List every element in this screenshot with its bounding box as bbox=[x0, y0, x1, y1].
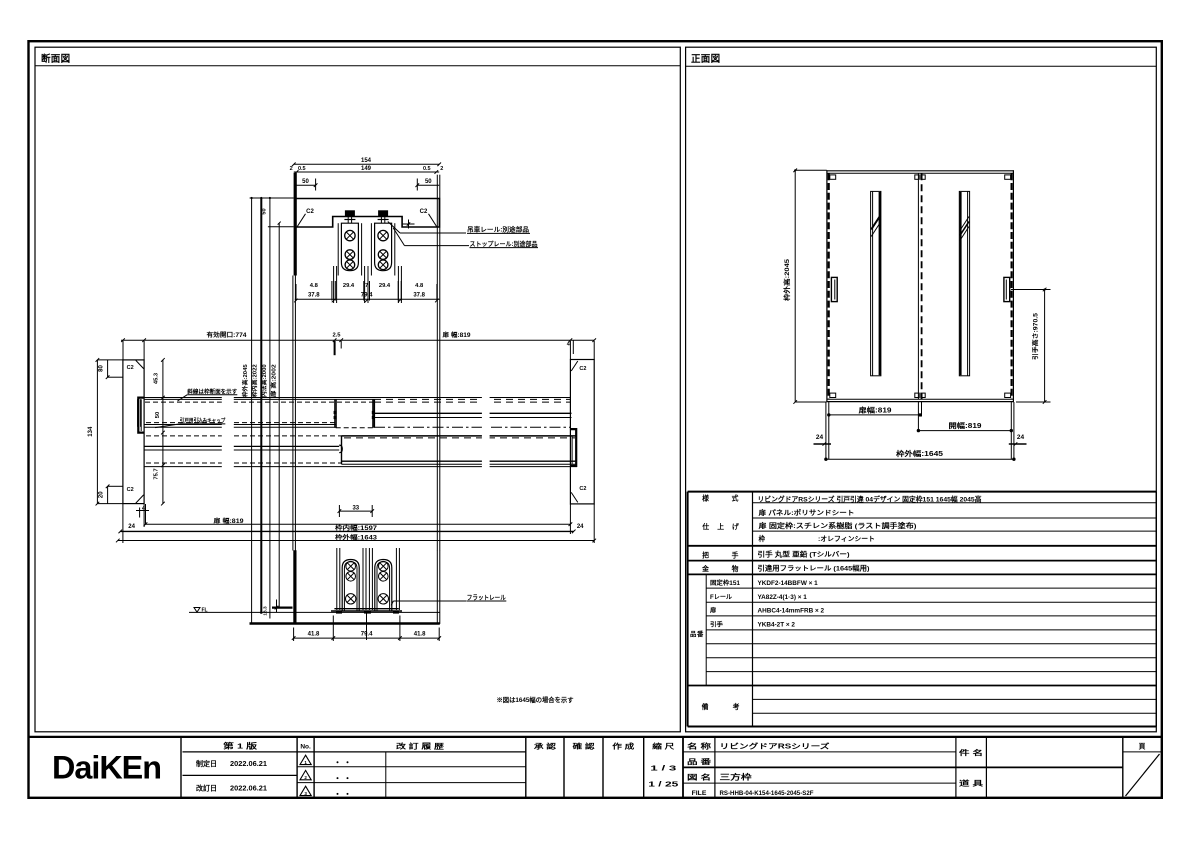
svg-text:29.4: 29.4 bbox=[379, 283, 391, 289]
svg-text:2: 2 bbox=[290, 166, 293, 172]
front view: top-left corner bracket bbox=[830, 175, 836, 179]
svg-text:吊車レール:別途部品: 吊車レール:別途部品 bbox=[467, 225, 529, 234]
svg-text:扉: 扉 bbox=[709, 607, 716, 615]
svg-text:37.8: 37.8 bbox=[413, 293, 425, 299]
plan break gap left bbox=[222, 390, 234, 470]
svg-text:79.4: 79.4 bbox=[361, 631, 373, 637]
front view: left frame edge solid bbox=[826, 170, 828, 402]
svg-text:枠外高:2045: 枠外高:2045 bbox=[241, 364, 249, 398]
svg-text:頁: 頁 bbox=[1139, 743, 1146, 751]
front dim 24 right bbox=[1009, 443, 1027, 445]
svg-text:C2: C2 bbox=[420, 209, 428, 215]
svg-text:第 1 版: 第 1 版 bbox=[223, 740, 258, 750]
svg-text:断面図: 断面図 bbox=[41, 53, 70, 65]
svg-text:枠外幅:1645: 枠外幅:1645 bbox=[896, 449, 943, 458]
top detail: roller hanger right body bbox=[375, 223, 392, 271]
front view: center stile solid line bbox=[917, 173, 919, 399]
svg-text:45.3: 45.3 bbox=[154, 372, 160, 384]
front view: bottom-center brackets bbox=[915, 393, 919, 397]
callout leader 吊車レール bbox=[388, 222, 400, 234]
svg-text:リビングドアRSシリーズ 引戸引違 04デザイン 固定枠15: リビングドアRSシリーズ 引戸引違 04デザイン 固定枠151 1645幅 20… bbox=[758, 495, 982, 504]
svg-text:扉 高:2002: 扉 高:2002 bbox=[269, 364, 277, 397]
svg-text:YKDF2-14BBFW × 1: YKDF2-14BBFW × 1 bbox=[758, 580, 819, 587]
svg-text:AHBC4-14mmFRB × 2: AHBC4-14mmFRB × 2 bbox=[758, 608, 825, 615]
vertical section frame lines left bbox=[292, 276, 294, 551]
svg-text:名 称: 名 称 bbox=[687, 742, 711, 751]
svg-text:三方枠: 三方枠 bbox=[720, 772, 753, 782]
bottom detail: floor bottom thick bbox=[250, 622, 440, 625]
svg-text:扉幅:819: 扉幅:819 bbox=[857, 406, 891, 415]
vertical section connector top bbox=[250, 197, 294, 199]
top detail: right 50 dim bbox=[417, 184, 439, 186]
svg-text:内法高:2000: 内法高:2000 bbox=[260, 364, 268, 397]
top detail: roller right side plates bbox=[370, 223, 372, 275]
title block right section divider bbox=[682, 737, 684, 798]
svg-text::オレフィンシート: :オレフィンシート bbox=[818, 535, 875, 543]
svg-text:仕: 仕 bbox=[701, 522, 709, 531]
svg-text:引手 丸型 亜鉛 (Tシルバー): 引手 丸型 亜鉛 (Tシルバー) bbox=[758, 550, 850, 559]
svg-text:20: 20 bbox=[98, 491, 104, 498]
plan upper band centerline right bbox=[374, 426, 570, 428]
recess dim arrow right bbox=[402, 223, 415, 225]
svg-text:24: 24 bbox=[577, 524, 584, 530]
front dim 24 left bbox=[814, 443, 832, 445]
title block column 承認 bbox=[525, 737, 527, 798]
svg-text:固定枠151: 固定枠151 bbox=[710, 579, 741, 587]
vertical dim line 4 bbox=[278, 223, 280, 608]
title block: No column bbox=[296, 737, 298, 798]
svg-text:品 番: 品 番 bbox=[687, 757, 711, 766]
plan lower band bottom edge bbox=[342, 460, 578, 462]
svg-text:DaiKEn: DaiKEn bbox=[52, 750, 161, 786]
svg-text:29.4: 29.4 bbox=[343, 283, 355, 289]
svg-text:33: 33 bbox=[352, 505, 359, 511]
svg-text:フラットレール: フラットレール bbox=[467, 594, 507, 602]
plan bottom dim 33 bbox=[339, 510, 372, 512]
top detail: roller hanger left bolt bbox=[345, 210, 355, 216]
front view: left handle bbox=[831, 277, 837, 301]
front view: right handle bbox=[1004, 277, 1010, 301]
front dim extension verticals below door bbox=[825, 402, 827, 459]
svg-text:承 認: 承 認 bbox=[534, 742, 556, 751]
top detail: bottom dim extension lines bbox=[295, 284, 297, 301]
top detail: roller right wheels bbox=[378, 230, 388, 240]
right panel title separator bbox=[686, 65, 1157, 67]
svg-text:リビングドアRSシリーズ: リビングドアRSシリーズ bbox=[720, 742, 830, 751]
title block 件名 column bbox=[955, 737, 957, 798]
svg-text:枠外幅:1643: 枠外幅:1643 bbox=[335, 533, 378, 541]
top detail: C2 chamfer right bbox=[429, 214, 437, 227]
floor level mark FL bbox=[194, 608, 200, 613]
svg-text:0.5: 0.5 bbox=[298, 166, 306, 172]
plan lower rail end cap bbox=[339, 445, 342, 453]
front view: top-right corner bracket bbox=[1005, 175, 1011, 179]
top detail: roller left wheels bbox=[345, 230, 355, 240]
top detail: dim 154 line bbox=[294, 163, 439, 165]
svg-text:作 成: 作 成 bbox=[612, 742, 634, 751]
svg-text:2022.06.21: 2022.06.21 bbox=[230, 761, 267, 768]
svg-text:C2: C2 bbox=[579, 366, 586, 372]
svg-text:RS-HHB-04-K154-1645-2045-S2F: RS-HHB-04-K154-1645-2045-S2F bbox=[720, 790, 814, 797]
bottom detail: floor line thin bbox=[189, 611, 440, 613]
svg-text:YA82Z-4(1·3) × 1: YA82Z-4(1·3) × 1 bbox=[758, 594, 808, 601]
top detail: C2 chamfer left bbox=[297, 214, 305, 227]
svg-text:げ: げ bbox=[732, 522, 739, 531]
svg-text:50: 50 bbox=[302, 179, 309, 185]
spec table row lines bbox=[753, 502, 1157, 504]
svg-text:備: 備 bbox=[702, 702, 709, 711]
svg-text:149: 149 bbox=[361, 166, 372, 172]
title block top border bbox=[29, 736, 1162, 738]
title block column 確認 bbox=[563, 737, 565, 798]
svg-text:図 名: 図 名 bbox=[687, 773, 711, 782]
front dim 扉幅819 right bbox=[918, 430, 1011, 432]
plan top dim line bbox=[121, 339, 594, 341]
plan bottom extension verticals bbox=[122, 504, 124, 543]
svg-text:24: 24 bbox=[1017, 434, 1025, 441]
top detail: roller left side plates bbox=[337, 223, 339, 275]
svg-text:番: 番 bbox=[696, 629, 704, 638]
svg-text:50: 50 bbox=[155, 412, 161, 418]
svg-text:79.4: 79.4 bbox=[361, 293, 373, 299]
svg-text:枠内高:2022: 枠内高:2022 bbox=[251, 364, 259, 398]
plan upper band top edge bbox=[144, 397, 570, 399]
svg-text:確 認: 確 認 bbox=[573, 742, 595, 751]
left panel title separator bbox=[35, 65, 680, 67]
right jamb notch bracket bbox=[570, 429, 576, 466]
left jamb outer dim 134 bbox=[96, 360, 98, 504]
plan bottom dim 枠内幅1597 bbox=[120, 530, 573, 532]
svg-text:50: 50 bbox=[425, 179, 432, 185]
revision date dots bbox=[337, 761, 339, 763]
svg-text:1 / 3: 1 / 3 bbox=[650, 763, 676, 772]
revision warning triangle 3 bbox=[300, 786, 311, 795]
vertical section frame lines right bbox=[436, 276, 438, 551]
svg-text:開幅:819: 開幅:819 bbox=[949, 421, 982, 430]
svg-text:扉 パネル:ポリサンドシート: 扉 パネル:ポリサンドシート bbox=[759, 508, 855, 517]
front view: right glass slot bbox=[959, 191, 969, 375]
title block column 作成 bbox=[602, 737, 604, 798]
svg-text:考: 考 bbox=[733, 702, 740, 711]
svg-text:改 訂 履 歴: 改 訂 履 歴 bbox=[396, 742, 444, 751]
svg-text:斜線は枠断面を示す: 斜線は枠断面を示す bbox=[186, 387, 237, 395]
svg-text:枠内幅:1597: 枠内幅:1597 bbox=[335, 524, 378, 532]
vertical section connector 50-dim bbox=[268, 226, 294, 228]
spec table label column line bbox=[752, 492, 754, 727]
right panel frame (front view) bbox=[686, 47, 1157, 732]
left jamb bbox=[123, 360, 144, 504]
plan upper band hidden dash line bbox=[145, 401, 374, 403]
vertical dim line 3 bbox=[269, 198, 271, 619]
svg-text:80: 80 bbox=[98, 365, 104, 372]
front view: bottom-right corner bracket bbox=[1005, 393, 1011, 397]
svg-text:YKB4-2T × 2: YKB4-2T × 2 bbox=[758, 622, 796, 629]
callout フラットレール bbox=[391, 601, 393, 605]
svg-text:引違用フラットレール (1645幅用): 引違用フラットレール (1645幅用) bbox=[758, 564, 870, 573]
front dim 引手高さ970.5 vertical line bbox=[1044, 290, 1046, 403]
svg-text:18.3: 18.3 bbox=[262, 606, 268, 616]
svg-text:扉 固定枠:スチレン系樹脂 (ラスト調手塗布): 扉 固定枠:スチレン系樹脂 (ラスト調手塗布) bbox=[759, 521, 917, 530]
plan lower rail lines left bbox=[144, 445, 339, 447]
front view: right frame edge solid bbox=[1012, 170, 1014, 402]
front view: left glass slot bbox=[871, 191, 881, 375]
svg-text:C2: C2 bbox=[306, 209, 314, 215]
svg-text:枠外高:2045: 枠外高:2045 bbox=[782, 259, 791, 301]
svg-text:件 名: 件 名 bbox=[959, 748, 983, 757]
front view: door top double edge bbox=[827, 170, 1014, 172]
svg-text:引手高さ:970.5: 引手高さ:970.5 bbox=[1031, 312, 1039, 360]
title block: DAIKEN cell divider bbox=[180, 737, 182, 798]
vertical dim line 1 (frame outer height) bbox=[251, 198, 253, 623]
svg-text:金: 金 bbox=[701, 564, 709, 573]
svg-text:37.8: 37.8 bbox=[308, 293, 320, 299]
svg-text:C2: C2 bbox=[127, 487, 134, 493]
svg-text:※図は1645幅の場合を示す: ※図は1645幅の場合を示す bbox=[497, 695, 574, 704]
title block: revision row lines bbox=[297, 751, 526, 753]
svg-text:24: 24 bbox=[816, 434, 824, 441]
svg-text:扉 幅:819: 扉 幅:819 bbox=[212, 517, 244, 525]
plan meeting stile verticals bbox=[334, 399, 336, 427]
revision warning triangle 2 bbox=[300, 770, 311, 779]
top detail: dim row 2/0.5/149/0.5/2 bbox=[294, 171, 439, 173]
top detail: roller hanger right bolt bbox=[378, 210, 388, 216]
svg-text:C2: C2 bbox=[127, 365, 134, 371]
front view: left door edge dashed bbox=[828, 173, 830, 399]
svg-text:上: 上 bbox=[717, 522, 724, 531]
title block page diagonal bbox=[1126, 754, 1160, 796]
front view: bottom-left corner bracket bbox=[830, 393, 836, 397]
spec table 品番 sub column bbox=[705, 574, 707, 685]
plan right door end bbox=[341, 436, 343, 464]
front view: top-center brackets bbox=[915, 175, 919, 179]
top detail: right wall double line bbox=[436, 175, 438, 276]
svg-text:C2: C2 bbox=[579, 486, 586, 492]
front view: center stile dashed line bbox=[921, 173, 923, 399]
svg-text:品: 品 bbox=[690, 629, 697, 638]
svg-text:正面図: 正面図 bbox=[691, 54, 720, 65]
bottom detail: guide left body bbox=[342, 560, 359, 611]
plan right 4 dim bbox=[572, 341, 574, 355]
plan top dim extension ticks bbox=[334, 341, 336, 355]
svg-text:式: 式 bbox=[732, 494, 739, 503]
svg-text:縮 尺: 縮 尺 bbox=[652, 742, 674, 751]
title block: 第1版 cell bbox=[182, 737, 184, 798]
bottom detail: door edges above guides bbox=[336, 548, 338, 610]
svg-text:134: 134 bbox=[88, 426, 94, 437]
bottom detail: guide left wheels bbox=[346, 561, 356, 571]
svg-text:道 具: 道 具 bbox=[959, 779, 983, 788]
right jamb bbox=[570, 360, 594, 504]
left jamb notch bracket bbox=[138, 398, 144, 433]
left jamb inner dims 45.3 / 50 / 75.7 bbox=[162, 360, 164, 504]
svg-text:4.8: 4.8 bbox=[310, 283, 319, 289]
vertical dim line 2 thick bbox=[260, 198, 262, 614]
svg-text:枠: 枠 bbox=[759, 534, 766, 543]
bottom detail: flat rail profile bbox=[334, 608, 398, 610]
spec table bottom bbox=[688, 726, 1157, 728]
svg-text:Fレール: Fレール bbox=[710, 594, 733, 601]
top detail: bottom dim line bbox=[295, 298, 440, 300]
svg-text:物: 物 bbox=[732, 564, 739, 573]
svg-text:75.7: 75.7 bbox=[154, 468, 160, 479]
title block column 縮尺 bbox=[643, 737, 645, 798]
svg-text:2: 2 bbox=[440, 166, 443, 172]
svg-text:FL: FL bbox=[201, 608, 207, 614]
svg-text:No.: No. bbox=[300, 744, 311, 751]
svg-text:把: 把 bbox=[702, 551, 709, 560]
front view: right door edge dashed bbox=[1010, 173, 1012, 399]
title block right row lines bbox=[683, 751, 956, 753]
top detail: roller hanger left body bbox=[341, 223, 358, 271]
plan upper band mid boundary left bbox=[144, 424, 336, 426]
svg-text:ストップレール:別途部品: ストップレール:別途部品 bbox=[470, 239, 538, 248]
svg-text:制定日: 制定日 bbox=[196, 759, 217, 768]
svg-text:FILE: FILE bbox=[692, 790, 707, 797]
plan bottom dim 扉幅819 bbox=[146, 523, 571, 525]
svg-text:様: 様 bbox=[702, 494, 709, 503]
svg-text:引手: 引手 bbox=[710, 621, 724, 629]
spec table outer sides bbox=[687, 492, 689, 727]
front dim 枠外幅1645 bbox=[826, 458, 1014, 460]
bottom detail: guide right body bbox=[375, 560, 392, 611]
plan break gap right bbox=[482, 394, 490, 470]
title block 名称 label column bbox=[714, 737, 716, 798]
bottom detail: guide right wheels bbox=[379, 561, 389, 571]
plan upper band dashed boundary mid bbox=[336, 427, 374, 429]
svg-text:0.5: 0.5 bbox=[423, 166, 431, 172]
plan upper rail lines right bbox=[374, 412, 572, 414]
top detail: head jamb profile bbox=[295, 199, 440, 228]
svg-text:手: 手 bbox=[732, 551, 739, 560]
left panel frame (cross-section view) bbox=[35, 47, 680, 732]
svg-text:有効開口:774: 有効開口:774 bbox=[207, 331, 248, 339]
svg-text:50: 50 bbox=[262, 208, 268, 214]
front view: door bottom double edge bbox=[827, 398, 1014, 400]
bottom detail: center line to dim bbox=[366, 613, 368, 640]
front dim 枠外高2045 vertical line bbox=[794, 170, 796, 402]
spec table outer top bbox=[688, 491, 1157, 493]
top detail: left 50 dim bbox=[295, 184, 316, 186]
svg-text:扉 幅:819: 扉 幅:819 bbox=[441, 331, 471, 339]
svg-text:引戸用引込みキャップ: 引戸用引込みキャップ bbox=[180, 416, 226, 424]
top detail: door top edges under rollers bbox=[333, 266, 335, 303]
bottom detail: bottom dims 41.8/79.4/41.8 bbox=[294, 637, 440, 639]
plan bottom dim 枠外幅1643 bbox=[118, 540, 594, 542]
callout leader ストップレール bbox=[393, 228, 404, 246]
plan left door cap bbox=[137, 399, 139, 427]
title block 頁 column bbox=[1122, 737, 1124, 798]
svg-text:4.8: 4.8 bbox=[415, 283, 424, 289]
svg-text:154: 154 bbox=[361, 158, 372, 164]
revision warning triangle 1 bbox=[300, 755, 311, 764]
svg-text:2022.06.21: 2022.06.21 bbox=[230, 785, 267, 792]
svg-text:2.5: 2.5 bbox=[332, 333, 341, 339]
left jamb dim 20 bbox=[107, 486, 109, 503]
svg-text:41.8: 41.8 bbox=[414, 631, 426, 637]
left jamb dim 80 bbox=[107, 360, 109, 377]
plan lower band door top edge bbox=[342, 435, 578, 437]
svg-text:7: 7 bbox=[365, 283, 368, 289]
title block: revision sub column bbox=[385, 752, 387, 798]
svg-text:24: 24 bbox=[128, 524, 135, 530]
svg-text:1 / 25: 1 / 25 bbox=[648, 779, 678, 788]
svg-text:改訂日: 改訂日 bbox=[196, 783, 217, 792]
front dim 扉幅819 left bbox=[829, 414, 922, 416]
top detail: left wall thick bar bbox=[294, 173, 297, 276]
plan bottom dim 4 bbox=[139, 508, 141, 518]
bottom detail: left wall thick bar bbox=[293, 550, 296, 624]
svg-text:41.8: 41.8 bbox=[308, 631, 320, 637]
bottom detail: right wall double line bbox=[436, 550, 438, 624]
